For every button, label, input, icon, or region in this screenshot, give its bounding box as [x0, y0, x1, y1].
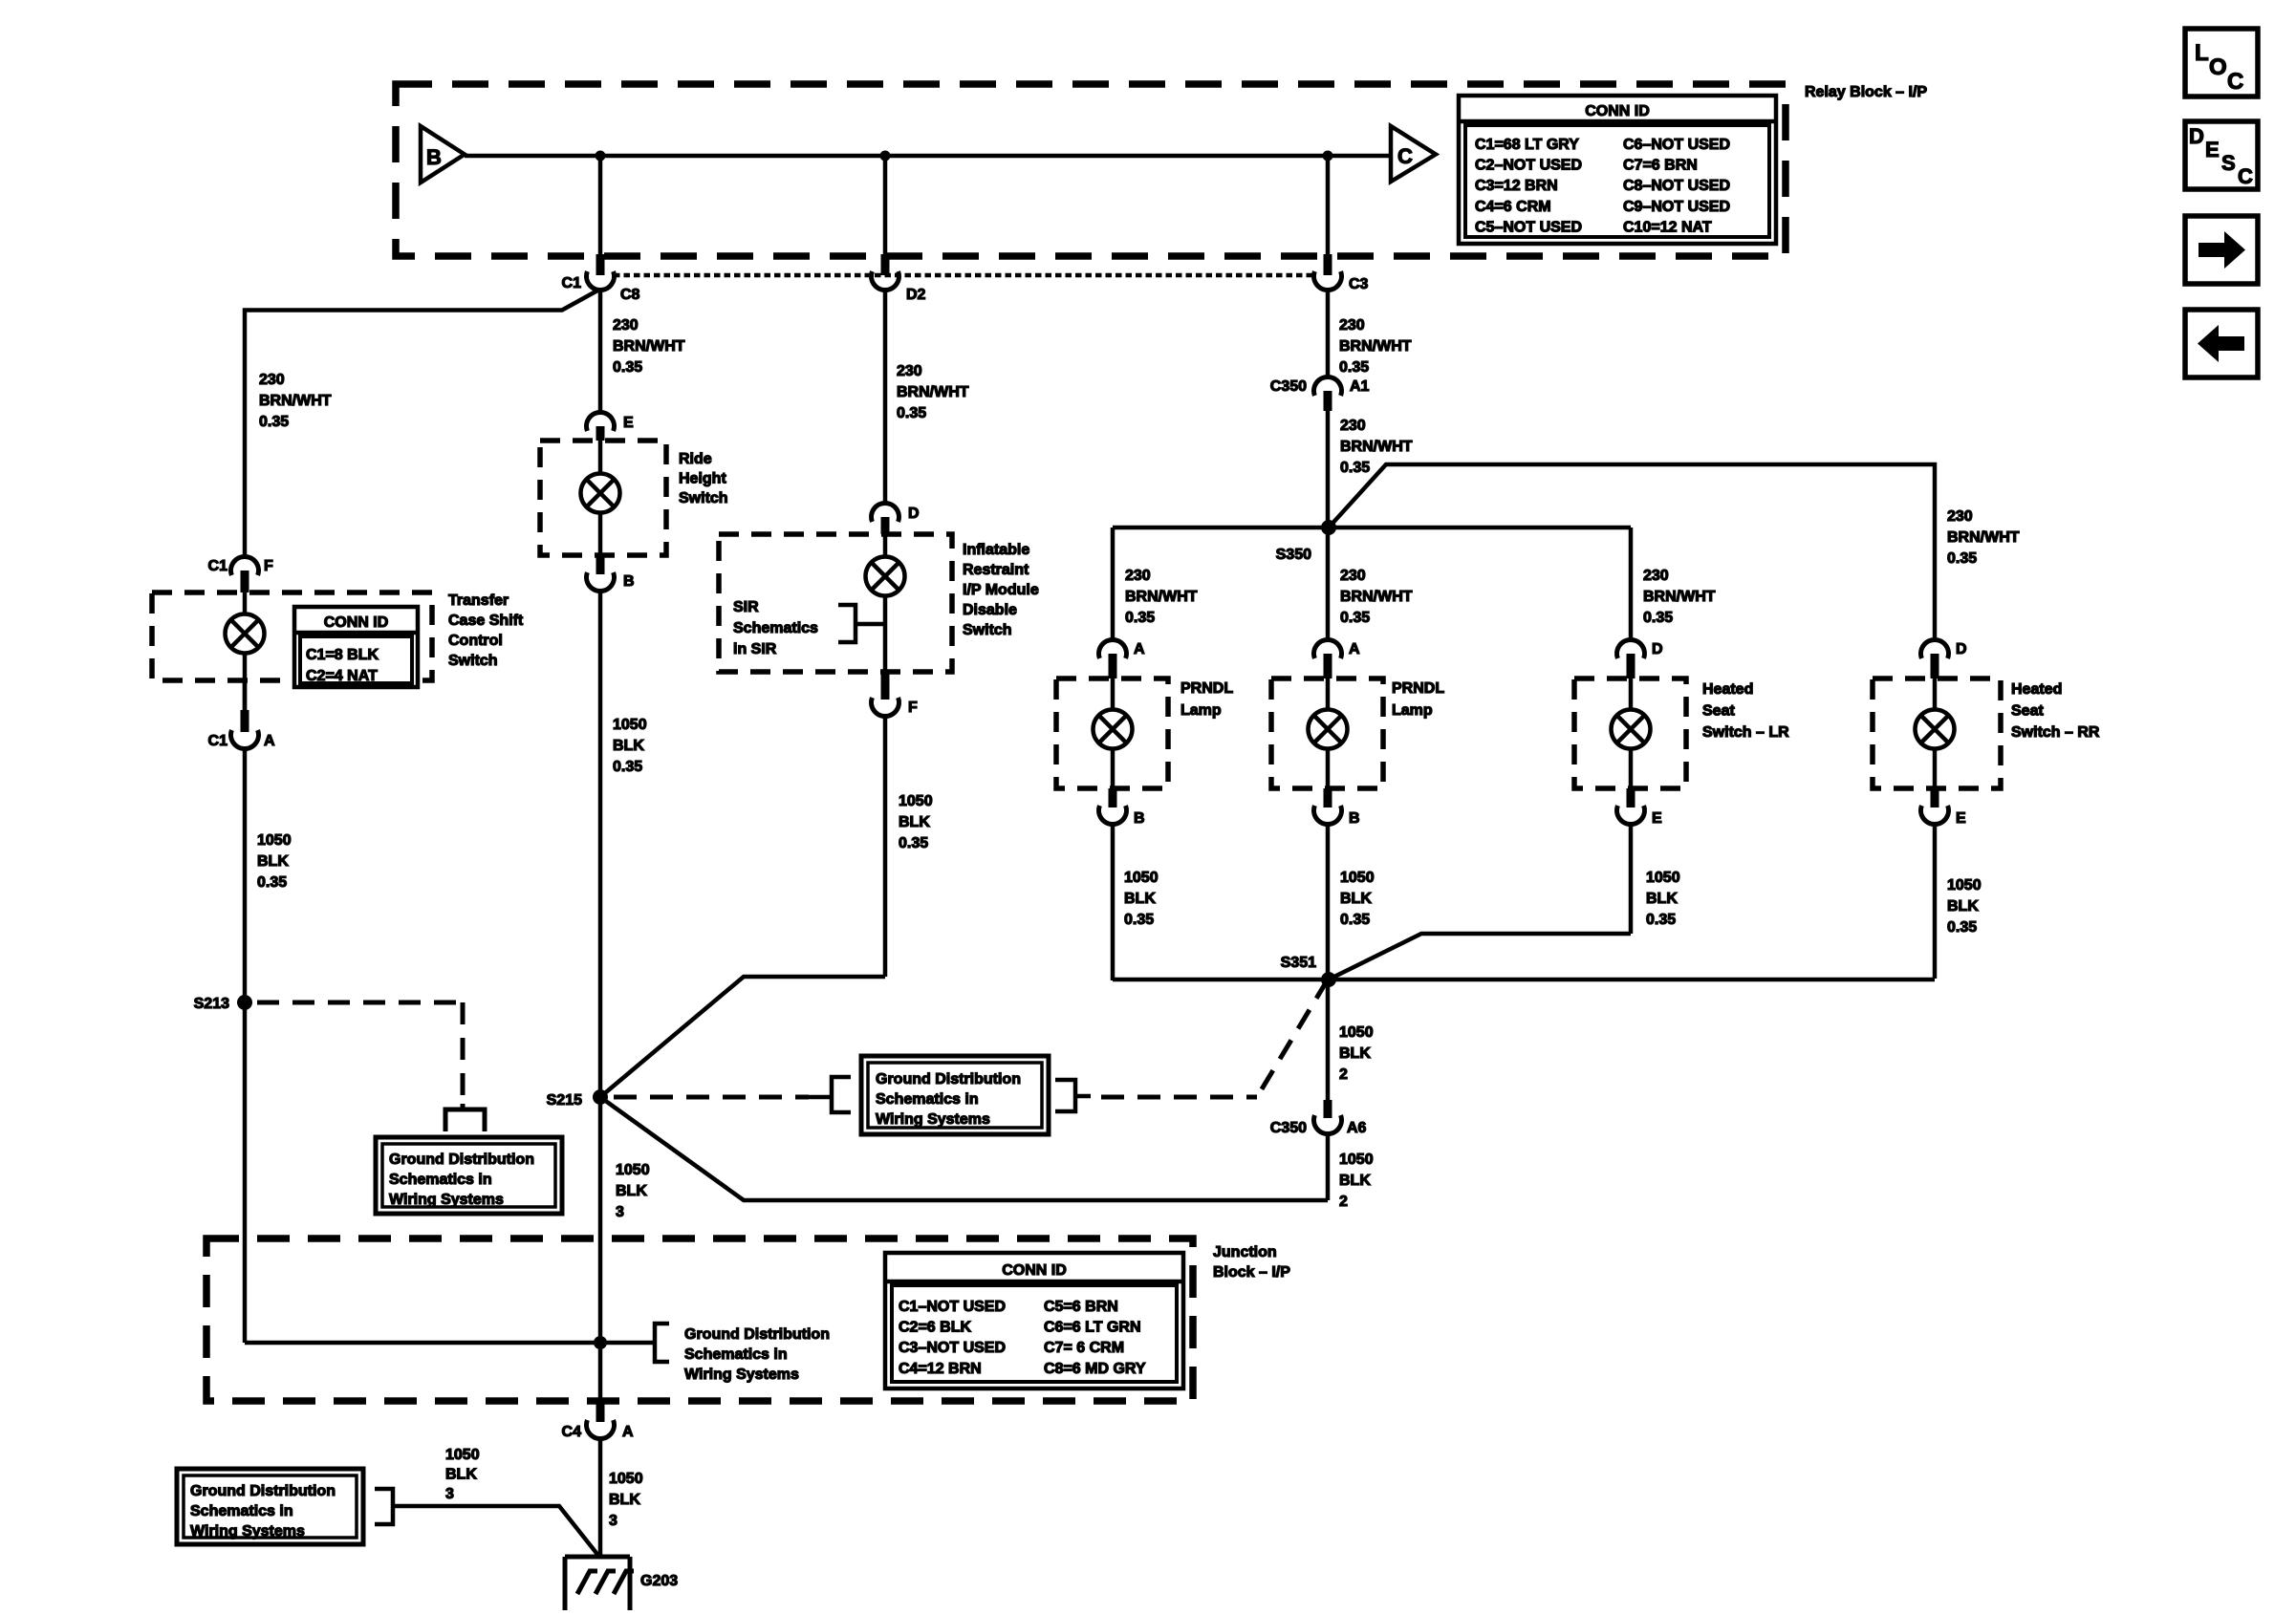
svg-text:0.35: 0.35: [1125, 610, 1155, 626]
svg-text:C4: C4: [562, 1424, 582, 1440]
svg-text:CONN ID: CONN ID: [1585, 103, 1650, 119]
svg-text:0.35: 0.35: [1947, 550, 1977, 567]
svg-text:C8–NOT USED: C8–NOT USED: [1623, 178, 1730, 194]
svg-text:BRN/WHT: BRN/WHT: [259, 393, 332, 409]
svg-text:BLK: BLK: [1339, 1045, 1371, 1062]
svg-text:Case Shift: Case Shift: [448, 613, 524, 629]
svg-text:E: E: [2205, 138, 2220, 161]
svg-text:0.35: 0.35: [897, 405, 926, 421]
svg-text:230: 230: [1125, 568, 1151, 584]
svg-text:1050: 1050: [1339, 1152, 1374, 1168]
svg-text:0.35: 0.35: [899, 835, 928, 851]
svg-text:A1: A1: [1350, 378, 1370, 395]
svg-text:BRN/WHT: BRN/WHT: [1340, 589, 1413, 605]
svg-text:1050: 1050: [1124, 870, 1159, 886]
svg-text:230: 230: [613, 317, 639, 334]
svg-text:C8=6 MD GRY: C8=6 MD GRY: [1044, 1361, 1146, 1377]
svg-text:B: B: [426, 145, 442, 169]
svg-text:C3: C3: [1349, 276, 1369, 292]
svg-text:PRNDL: PRNDL: [1392, 680, 1444, 697]
svg-text:Schematics in: Schematics in: [684, 1346, 788, 1363]
svg-text:C2–NOT USED: C2–NOT USED: [1475, 158, 1582, 174]
svg-text:C5–NOT USED: C5–NOT USED: [1475, 219, 1582, 235]
svg-text:Schematics: Schematics: [733, 620, 818, 636]
svg-text:1050: 1050: [613, 717, 647, 733]
svg-text:1050: 1050: [616, 1162, 650, 1178]
svg-text:E: E: [1956, 810, 1966, 827]
svg-text:S213: S213: [194, 996, 229, 1012]
svg-text:BLK: BLK: [899, 814, 930, 830]
svg-text:S: S: [2221, 151, 2236, 175]
svg-text:BLK: BLK: [257, 853, 289, 870]
svg-text:O: O: [2209, 54, 2227, 80]
svg-text:C1=8 BLK: C1=8 BLK: [306, 647, 379, 663]
svg-text:3: 3: [616, 1204, 624, 1220]
svg-text:C7= 6 CRM: C7= 6 CRM: [1044, 1340, 1124, 1356]
svg-text:A: A: [1134, 641, 1145, 657]
svg-text:BLK: BLK: [445, 1467, 477, 1483]
svg-text:C2=4 NAT: C2=4 NAT: [306, 668, 378, 684]
svg-text:F: F: [908, 700, 918, 716]
svg-text:0.35: 0.35: [257, 874, 287, 891]
svg-text:1050: 1050: [609, 1471, 643, 1487]
svg-text:PRNDL: PRNDL: [1180, 680, 1233, 697]
svg-text:BLK: BLK: [1947, 898, 1979, 915]
svg-text:0.35: 0.35: [1340, 912, 1370, 928]
svg-text:E: E: [1652, 810, 1662, 827]
svg-text:1050: 1050: [1947, 877, 1982, 894]
svg-text:Seat: Seat: [1702, 703, 1735, 720]
svg-text:Schematics in: Schematics in: [389, 1172, 492, 1188]
svg-text:C9–NOT USED: C9–NOT USED: [1623, 199, 1730, 215]
svg-text:C2=6 BLK: C2=6 BLK: [899, 1320, 971, 1336]
svg-text:A: A: [622, 1424, 634, 1440]
svg-text:in SIR: in SIR: [733, 641, 777, 657]
svg-text:Heated: Heated: [2011, 681, 2062, 698]
svg-text:C3–NOT USED: C3–NOT USED: [899, 1340, 1006, 1356]
svg-text:BRN/WHT: BRN/WHT: [1339, 338, 1412, 355]
svg-text:230: 230: [1643, 568, 1669, 584]
svg-text:C350: C350: [1270, 378, 1307, 395]
svg-text:Junction: Junction: [1213, 1244, 1277, 1260]
svg-text:Ground Distribution: Ground Distribution: [389, 1152, 534, 1168]
svg-text:0.35: 0.35: [1340, 610, 1370, 626]
svg-text:2: 2: [1339, 1066, 1348, 1083]
svg-text:CONN ID: CONN ID: [1002, 1262, 1067, 1279]
svg-text:C10=12 NAT: C10=12 NAT: [1623, 219, 1712, 235]
svg-text:B: B: [1134, 810, 1145, 827]
svg-text:BRN/WHT: BRN/WHT: [1340, 439, 1413, 455]
svg-text:L: L: [2195, 40, 2209, 66]
svg-text:0.35: 0.35: [259, 414, 289, 430]
svg-text:B: B: [623, 573, 635, 590]
svg-text:Switch – LR: Switch – LR: [1702, 724, 1789, 741]
svg-text:C4=12 BRN: C4=12 BRN: [899, 1361, 982, 1377]
svg-text:230: 230: [1339, 317, 1365, 334]
svg-text:Switch: Switch: [679, 490, 728, 506]
svg-text:S215: S215: [547, 1092, 582, 1109]
svg-text:C: C: [2238, 164, 2253, 188]
svg-text:D: D: [1652, 641, 1663, 657]
svg-text:D: D: [2189, 124, 2204, 148]
svg-text:BLK: BLK: [1339, 1173, 1371, 1189]
svg-text:A: A: [264, 733, 275, 749]
svg-text:1050: 1050: [257, 832, 292, 849]
svg-text:0.35: 0.35: [1947, 919, 1977, 936]
svg-text:A6: A6: [1347, 1120, 1367, 1136]
svg-text:Ground Distribution: Ground Distribution: [684, 1326, 830, 1343]
svg-text:B: B: [1349, 810, 1360, 827]
svg-text:0.35: 0.35: [1339, 359, 1369, 376]
svg-text:BRN/WHT: BRN/WHT: [1125, 589, 1198, 605]
svg-text:BLK: BLK: [616, 1183, 647, 1199]
svg-text:BLK: BLK: [1340, 891, 1372, 907]
svg-text:BRN/WHT: BRN/WHT: [1643, 589, 1716, 605]
svg-text:Relay Block – I/P: Relay Block – I/P: [1805, 84, 1927, 100]
svg-text:Height: Height: [679, 471, 726, 487]
svg-text:BRN/WHT: BRN/WHT: [897, 384, 969, 400]
svg-text:3: 3: [609, 1513, 617, 1529]
svg-text:C4=6 CRM: C4=6 CRM: [1475, 199, 1551, 215]
svg-text:Control: Control: [448, 633, 503, 649]
svg-text:C5=6 BRN: C5=6 BRN: [1044, 1299, 1118, 1315]
svg-text:230: 230: [1340, 418, 1366, 434]
svg-text:D: D: [908, 506, 920, 522]
svg-text:Switch – RR: Switch – RR: [2011, 724, 2100, 741]
svg-text:Transfer: Transfer: [448, 592, 509, 609]
svg-text:Ground Distribution: Ground Distribution: [876, 1071, 1021, 1087]
svg-text:230: 230: [1947, 508, 1973, 525]
svg-text:Ride: Ride: [679, 451, 712, 467]
svg-text:C350: C350: [1270, 1120, 1307, 1136]
svg-text:C6–NOT USED: C6–NOT USED: [1623, 137, 1730, 153]
svg-text:Schematics in: Schematics in: [876, 1091, 979, 1108]
svg-text:BRN/WHT: BRN/WHT: [613, 338, 685, 355]
svg-text:BRN/WHT: BRN/WHT: [1947, 529, 2020, 546]
svg-text:Ground Distribution: Ground Distribution: [190, 1483, 336, 1499]
svg-text:Heated: Heated: [1702, 681, 1753, 698]
svg-text:Lamp: Lamp: [1392, 702, 1433, 719]
svg-text:C6=6 LT GRN: C6=6 LT GRN: [1044, 1320, 1141, 1336]
svg-text:G203: G203: [640, 1573, 678, 1589]
svg-text:C: C: [1397, 144, 1413, 168]
svg-text:230: 230: [1340, 568, 1366, 584]
svg-text:0.35: 0.35: [1643, 610, 1673, 626]
svg-text:D2: D2: [906, 287, 926, 303]
svg-text:1050: 1050: [1340, 870, 1375, 886]
svg-text:0.35: 0.35: [1646, 912, 1676, 928]
svg-text:230: 230: [259, 372, 285, 388]
svg-text:230: 230: [897, 363, 922, 379]
svg-text:Wiring Systems: Wiring Systems: [389, 1192, 504, 1208]
svg-text:C1: C1: [208, 558, 228, 574]
svg-text:D: D: [1956, 641, 1967, 657]
svg-text:S350: S350: [1276, 547, 1311, 563]
svg-text:C8: C8: [620, 287, 640, 303]
svg-text:BLK: BLK: [1124, 891, 1156, 907]
svg-text:0.35: 0.35: [1124, 912, 1154, 928]
svg-text:C: C: [2227, 69, 2243, 95]
svg-text:I/P Module: I/P Module: [963, 582, 1039, 598]
svg-text:C3=12 BRN: C3=12 BRN: [1475, 178, 1558, 194]
svg-text:1050: 1050: [445, 1447, 480, 1463]
svg-text:Disable: Disable: [963, 602, 1017, 618]
svg-text:Wiring Systems: Wiring Systems: [684, 1367, 799, 1383]
svg-text:S351: S351: [1281, 955, 1316, 971]
svg-text:BLK: BLK: [1646, 891, 1678, 907]
svg-text:Schematics in: Schematics in: [190, 1503, 293, 1519]
svg-text:0.35: 0.35: [613, 759, 642, 775]
svg-text:F: F: [264, 558, 273, 574]
svg-text:Lamp: Lamp: [1180, 702, 1222, 719]
svg-text:3: 3: [445, 1486, 454, 1502]
svg-text:C7=6 BRN: C7=6 BRN: [1623, 158, 1698, 174]
svg-text:1050: 1050: [1646, 870, 1680, 886]
svg-text:BLK: BLK: [613, 738, 644, 754]
svg-text:Wiring Systems: Wiring Systems: [876, 1111, 990, 1128]
svg-text:1050: 1050: [1339, 1024, 1374, 1041]
svg-text:Switch: Switch: [963, 622, 1012, 638]
svg-text:1050: 1050: [899, 793, 933, 809]
svg-text:BLK: BLK: [609, 1492, 640, 1508]
svg-text:0.35: 0.35: [1340, 460, 1370, 476]
svg-text:CONN ID: CONN ID: [324, 614, 389, 631]
svg-text:2: 2: [1339, 1194, 1348, 1210]
svg-text:C1–NOT USED: C1–NOT USED: [899, 1299, 1006, 1315]
svg-text:C1=68 LT GRY: C1=68 LT GRY: [1475, 137, 1579, 153]
svg-text:Wiring Systems: Wiring Systems: [190, 1523, 305, 1540]
svg-text:C1: C1: [562, 275, 582, 291]
svg-text:C1: C1: [208, 733, 228, 749]
svg-text:Switch: Switch: [448, 653, 498, 669]
svg-text:0.35: 0.35: [613, 359, 642, 376]
svg-text:E: E: [623, 415, 634, 431]
svg-text:Block – I/P: Block – I/P: [1213, 1264, 1290, 1281]
svg-text:A: A: [1349, 641, 1360, 657]
svg-text:Seat: Seat: [2011, 703, 2044, 720]
svg-text:Inflatable: Inflatable: [963, 542, 1029, 558]
svg-text:Restraint: Restraint: [963, 562, 1029, 578]
svg-text:SIR: SIR: [733, 599, 759, 615]
